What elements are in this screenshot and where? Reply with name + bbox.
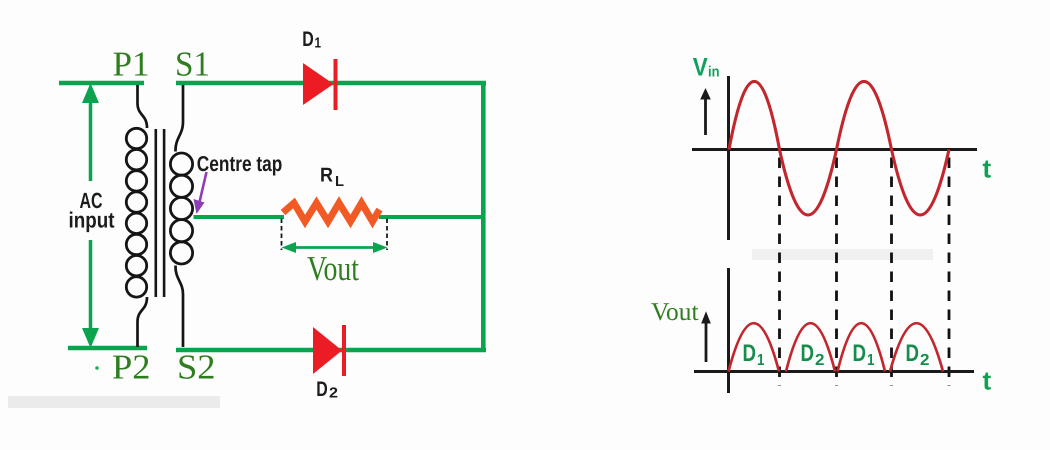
svg-text:t: t xyxy=(983,366,992,396)
svg-text:D: D xyxy=(801,340,815,367)
svg-text:R: R xyxy=(320,165,333,187)
diode D1 xyxy=(303,63,334,105)
svg-text:S1: S1 xyxy=(175,45,210,84)
top plot horizontal axis xyxy=(692,148,977,151)
Vout double arrow xyxy=(288,246,381,249)
svg-text:1: 1 xyxy=(757,352,765,369)
AC input arrow upper head xyxy=(82,83,99,103)
svg-text:2: 2 xyxy=(329,386,338,402)
wire: top-left primary segment xyxy=(59,81,144,86)
rectified hump 3 xyxy=(838,323,886,371)
transformer secondary lead bottom xyxy=(175,266,183,348)
resistor RL zigzag xyxy=(283,203,380,222)
top plot vertical axis xyxy=(727,76,730,240)
transformer secondary lead top xyxy=(175,85,183,152)
bottom plot horizontal axis xyxy=(694,370,974,373)
wire: bottom secondary segment xyxy=(176,348,486,353)
Vin sine wave xyxy=(729,81,949,215)
wire: load resistor to right bus xyxy=(379,215,486,219)
rectified hump 2 xyxy=(786,323,835,371)
wire: bottom-left primary segment xyxy=(68,346,147,351)
svg-text:D: D xyxy=(906,340,920,367)
svg-text:in: in xyxy=(708,63,720,80)
Vin black up arrow xyxy=(704,96,707,135)
transformer core lines xyxy=(155,129,158,297)
svg-text:S2: S2 xyxy=(177,348,216,387)
bottom plot vertical axis xyxy=(727,268,730,393)
svg-text:P1: P1 xyxy=(113,45,150,84)
transformer primary lead top xyxy=(138,85,148,128)
Vout dashed bracket right xyxy=(386,219,388,251)
svg-text:2: 2 xyxy=(920,352,930,369)
svg-text:L: L xyxy=(335,174,344,190)
svg-text:2: 2 xyxy=(815,352,825,369)
diode D2 xyxy=(313,327,342,374)
wire: centre tap to load resistor xyxy=(194,215,285,219)
AC input arrow lower shaft xyxy=(89,240,93,333)
dashed line 2 xyxy=(835,158,838,387)
Vout black up arrow xyxy=(705,320,708,362)
rectified hump 4 xyxy=(890,323,943,371)
svg-text:1: 1 xyxy=(315,35,322,51)
transformer primary lead bottom xyxy=(138,297,148,347)
svg-text:D: D xyxy=(302,28,314,51)
svg-text:t: t xyxy=(983,153,992,183)
faint artifact band bottom-left xyxy=(8,396,220,408)
wire: right vertical bus xyxy=(481,81,486,350)
rectified hump 1 xyxy=(729,323,780,371)
dashed line 3 xyxy=(890,158,893,387)
svg-text:Vout: Vout xyxy=(651,297,699,326)
svg-text:P2: P2 xyxy=(112,348,151,387)
svg-text:Centre tap: Centre tap xyxy=(197,152,282,176)
transformer secondary winding coils xyxy=(170,153,192,264)
AC input arrow lower head xyxy=(82,328,99,348)
transformer primary winding coils xyxy=(126,128,146,297)
svg-text:input: input xyxy=(69,208,116,233)
dashed line 4 xyxy=(948,158,951,387)
svg-text:D: D xyxy=(316,378,328,401)
svg-text:D: D xyxy=(853,340,867,367)
Vout dashed bracket left xyxy=(281,219,283,251)
svg-text:V: V xyxy=(693,54,708,82)
svg-text:1: 1 xyxy=(867,352,875,369)
diode D2 cathode bar xyxy=(342,325,346,376)
centre tap purple arrow xyxy=(200,172,207,202)
svg-text:D: D xyxy=(743,340,757,367)
svg-text:Vout: Vout xyxy=(307,249,359,288)
faint artifact erased text right panel xyxy=(752,249,933,260)
diode D1 cathode bar xyxy=(334,59,338,110)
wire: top secondary segment to right bus xyxy=(176,81,486,86)
AC input arrow upper shaft xyxy=(89,98,93,181)
green dot near P2 xyxy=(95,366,99,370)
dashed line 1 xyxy=(778,158,781,387)
